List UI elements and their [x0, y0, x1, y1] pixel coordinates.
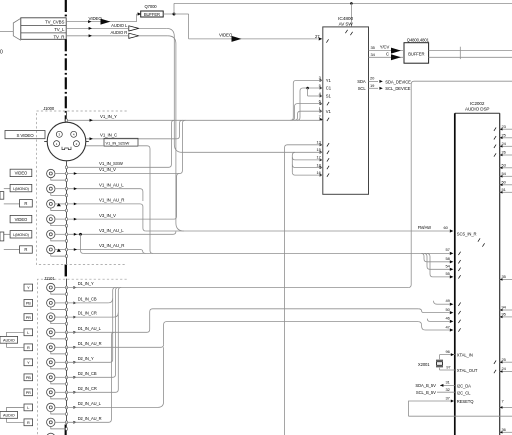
svg-text:D1_IN_AU_R: D1_IN_AU_R — [78, 341, 102, 346]
svg-text:J1000: J1000 — [43, 106, 55, 111]
svg-text:VIDEO: VIDEO — [15, 217, 28, 222]
svg-text:D2_IN_CB: D2_IN_CB — [78, 371, 97, 376]
svg-text:V1_IN_SSW: V1_IN_SSW — [99, 161, 124, 166]
svg-text:S VIDEO: S VIDEO — [16, 133, 34, 138]
svg-text:V3_IN_V: V3_IN_V — [99, 213, 116, 218]
svg-text:D1_IN_Y: D1_IN_Y — [78, 281, 94, 286]
svg-text:R: R — [24, 247, 27, 252]
svg-text:I2C_CL: I2C_CL — [457, 390, 471, 395]
svg-text:PB: PB — [26, 376, 31, 380]
svg-text:Y1: Y1 — [326, 78, 332, 83]
svg-text:D2_IN_CR: D2_IN_CR — [78, 386, 97, 391]
svg-text:XTAL_OUT: XTAL_OUT — [457, 368, 478, 373]
svg-text:AUDIO: AUDIO — [3, 414, 15, 418]
svg-text:VIDEO: VIDEO — [15, 171, 28, 176]
svg-text:V3_IN_AU_L: V3_IN_AU_L — [99, 228, 124, 233]
svg-text:D1_IN_CR: D1_IN_CR — [78, 311, 97, 316]
svg-text:27: 27 — [315, 34, 320, 39]
svg-text:V1_IN_S2SW: V1_IN_S2SW — [106, 140, 130, 145]
svg-text:BUFFER: BUFFER — [144, 12, 160, 17]
svg-text:AUDIO: AUDIO — [3, 339, 15, 343]
svg-text:SCL_DEVICE: SCL_DEVICE — [385, 86, 410, 91]
svg-text:Q7000: Q7000 — [144, 4, 157, 9]
svg-text:D1_IN_AU_L: D1_IN_AU_L — [78, 326, 102, 331]
svg-text:X2001: X2001 — [418, 362, 430, 367]
svg-text:D2_IN_AU_L: D2_IN_AU_L — [78, 401, 102, 406]
svg-text:SCL: SCL — [358, 86, 367, 91]
svg-text:J1101: J1101 — [44, 276, 55, 281]
svg-text:Y/CV: Y/CV — [380, 44, 390, 49]
svg-text:L: L — [27, 331, 29, 335]
svg-text:L(MONO): L(MONO) — [13, 187, 30, 191]
svg-text:0: 0 — [0, 50, 3, 56]
svg-text:VIDEO: VIDEO — [89, 16, 103, 21]
svg-text:XTAL_IN: XTAL_IN — [457, 353, 473, 358]
svg-text:C1: C1 — [326, 86, 332, 91]
svg-text:R: R — [27, 421, 30, 425]
svg-text:Q4800,4801: Q4800,4801 — [407, 37, 430, 42]
svg-text:SDA_DEVICE: SDA_DEVICE — [385, 79, 411, 84]
svg-text:D2_IN_AU_R: D2_IN_AU_R — [78, 416, 102, 421]
svg-text:SCL_B_5V: SCL_B_5V — [416, 390, 436, 395]
svg-text:TV_CVBS: TV_CVBS — [45, 20, 64, 25]
svg-text:PR: PR — [26, 391, 31, 395]
svg-text:TV_L: TV_L — [54, 27, 65, 32]
svg-text:S1: S1 — [326, 94, 332, 99]
svg-text:AUDIO L: AUDIO L — [111, 23, 128, 28]
svg-text:BUFFER: BUFFER — [408, 51, 424, 56]
svg-text:TV_R: TV_R — [53, 35, 64, 40]
svg-text:AUDIO R: AUDIO R — [110, 30, 127, 35]
svg-text:SCS_IN_R: SCS_IN_R — [457, 231, 477, 236]
svg-text:IC2002: IC2002 — [470, 101, 485, 106]
svg-text:V1: V1 — [326, 109, 332, 114]
svg-text:D1_IN_CB: D1_IN_CB — [78, 297, 97, 302]
svg-text:I2C_DA: I2C_DA — [457, 383, 471, 388]
svg-text:AV SW: AV SW — [339, 22, 354, 27]
svg-text:V1_IN_AU_R: V1_IN_AU_R — [99, 198, 124, 203]
svg-text:L: L — [27, 406, 29, 410]
svg-text:VIDEO: VIDEO — [219, 33, 233, 38]
svg-text:RESETQ: RESETQ — [457, 399, 474, 404]
svg-text:AUDIO DSP: AUDIO DSP — [465, 107, 489, 112]
svg-text:SDA_B_5V: SDA_B_5V — [415, 383, 436, 388]
svg-text:PB: PB — [26, 302, 31, 306]
svg-text:C: C — [386, 51, 389, 56]
svg-text:SDA: SDA — [357, 79, 366, 84]
svg-text:D2_IN_Y: D2_IN_Y — [78, 356, 94, 361]
svg-text:V3_IN_AU_R: V3_IN_AU_R — [99, 243, 124, 248]
svg-text:V1_IN_V: V1_IN_V — [99, 167, 116, 172]
svg-text:R: R — [27, 346, 30, 350]
svg-text:PR: PR — [26, 316, 31, 320]
svg-text:L(MONO): L(MONO) — [13, 233, 30, 237]
svg-text:V1_IN_AU_L: V1_IN_AU_L — [99, 182, 124, 187]
svg-text:R: R — [24, 201, 27, 206]
svg-text:V1_IN_Y: V1_IN_Y — [100, 114, 117, 119]
svg-text:V1_IN_C: V1_IN_C — [100, 133, 117, 138]
svg-text:FM/AW: FM/AW — [418, 225, 431, 230]
